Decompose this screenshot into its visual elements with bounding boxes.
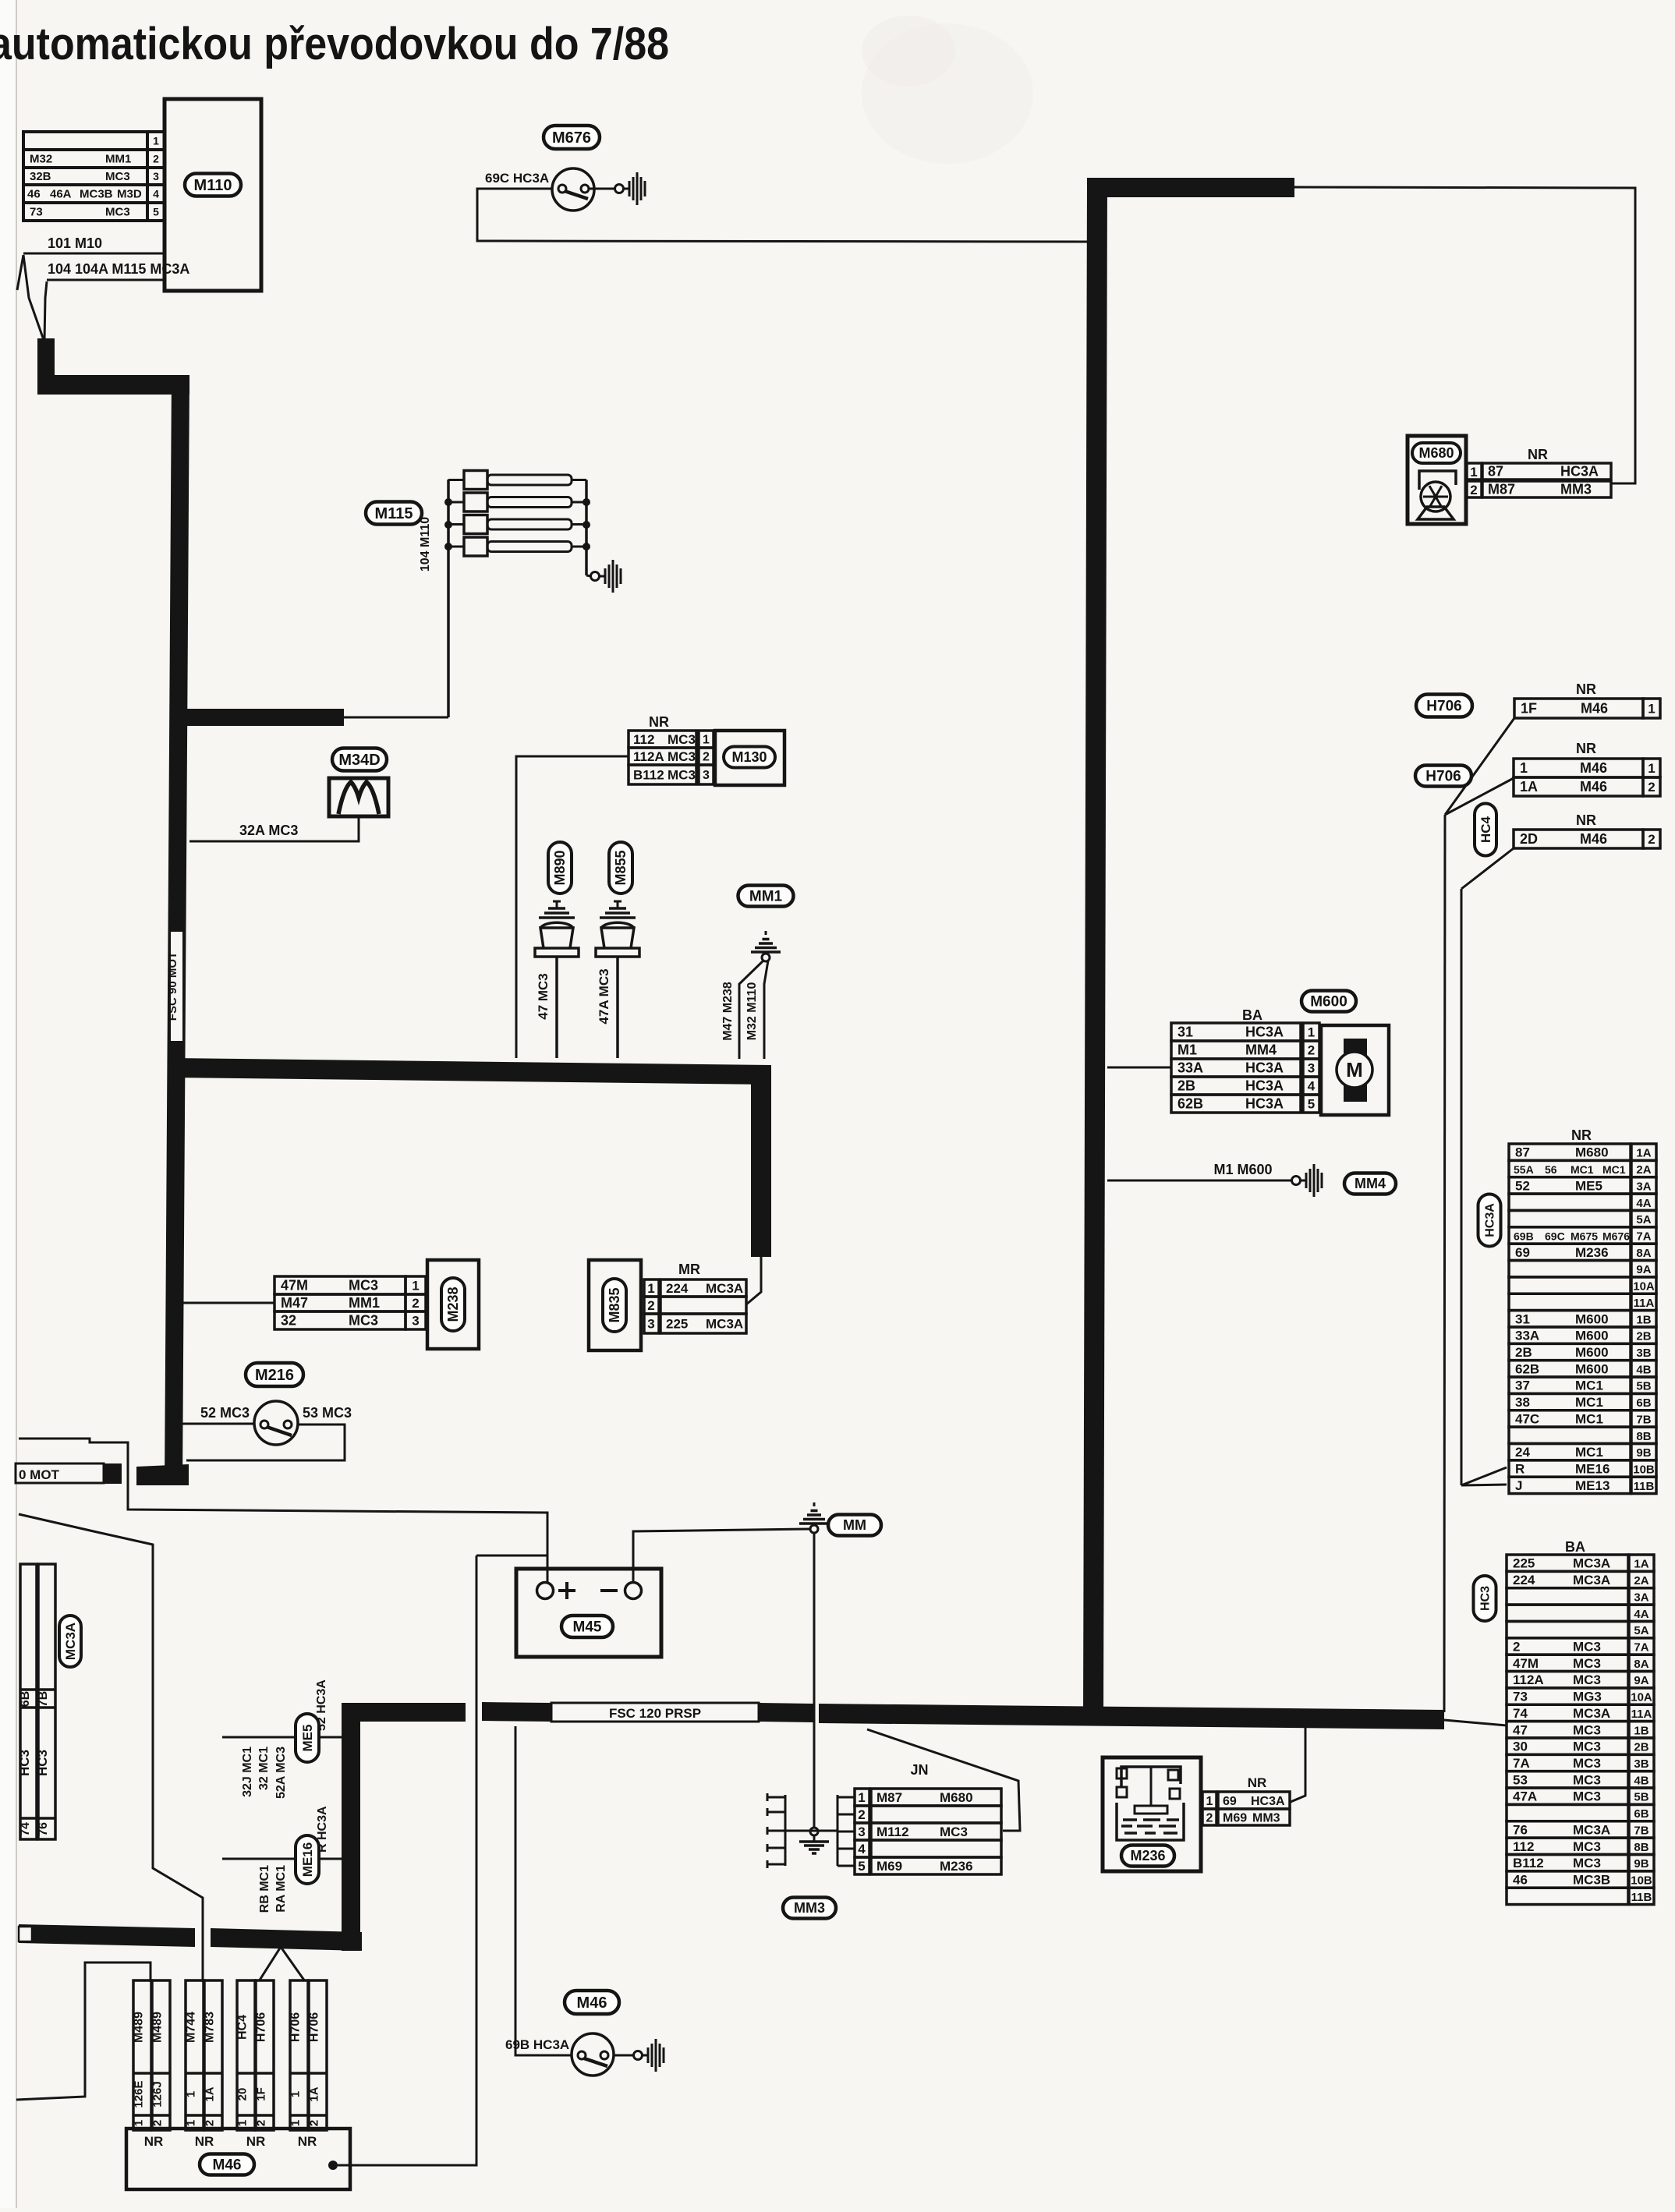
svg-text:47A MC3: 47A MC3 [597,968,611,1024]
ground JN MM3 [810,1828,818,1835]
svg-text:MC3: MC3 [668,749,696,764]
svg-text:M45: M45 [573,1619,602,1635]
HC3 row 2A [1507,1571,1628,1587]
svg-text:47C: 47C [1515,1411,1539,1426]
HC3 row 1A [1507,1555,1628,1571]
switch M46 [572,2033,614,2076]
svg-text:224: 224 [1513,1573,1535,1587]
wire bus to JN [867,1729,1020,1831]
svg-text:M600: M600 [1310,993,1347,1010]
svg-text:4B: 4B [1636,1363,1651,1376]
svg-text:M1 M600: M1 M600 [1213,1162,1272,1177]
bus MOT vertical drop to M835 [751,1065,771,1257]
connector table M110 [23,132,147,150]
JN row 4 [871,1840,1001,1857]
HC3A row 5A [1509,1210,1631,1226]
label oval M680 [1412,443,1461,463]
connector column M489 126E [133,1980,151,2130]
svg-text:RA MC1: RA MC1 [274,1865,288,1913]
svg-text:69B HC3A: 69B HC3A [505,2037,569,2052]
svg-text:RB MC1: RB MC1 [258,1865,271,1913]
svg-text:4: 4 [153,187,159,200]
svg-text:2: 2 [1513,1639,1520,1654]
svg-text:9B: 9B [1636,1446,1651,1460]
battery M45 [516,1569,661,1657]
wire to ME16 ME13 rows [1461,1467,1507,1485]
svg-text:6B: 6B [1636,1396,1651,1410]
HC3 row 11A [1507,1704,1628,1721]
HC3A row 10B [1509,1460,1631,1477]
svg-text:NR: NR [195,2134,214,2149]
bus PRSP main vertical [1083,178,1107,1725]
svg-text:MC3A: MC3A [1573,1556,1610,1571]
svg-text:2B: 2B [1177,1078,1195,1094]
label oval M236 [1121,1846,1174,1867]
connector table M238 [274,1276,405,1294]
wire to M744 connector [19,1514,203,1982]
svg-text:76: 76 [37,1822,50,1836]
glow plug rail right [585,480,588,576]
svg-text:52A MC3: 52A MC3 [274,1747,288,1799]
bus MOT right stub [186,709,344,726]
svg-text:1: 1 [1648,701,1655,716]
svg-text:73: 73 [1513,1690,1528,1704]
svg-text:NR: NR [246,2134,266,2149]
svg-text:MC3: MC3 [105,170,130,183]
svg-text:69: 69 [1223,1795,1237,1808]
svg-text:M115: M115 [375,505,413,522]
connector column M744 1 [186,1980,204,2130]
switch M216 [254,1401,298,1445]
svg-text:H706: H706 [1426,698,1461,714]
HC3A row 6B [1509,1393,1631,1410]
svg-text:4: 4 [1308,1078,1316,1093]
svg-text:112: 112 [1513,1839,1534,1854]
svg-text:M855: M855 [613,850,629,885]
svg-text:MR: MR [678,1262,700,1277]
svg-text:MC3: MC3 [349,1278,378,1294]
ground MM [810,1525,818,1533]
svg-text:1A: 1A [308,2086,321,2101]
svg-text:224: 224 [666,1281,689,1296]
svg-text:112A: 112A [1513,1672,1544,1687]
wire 52 HC3A through ME5 [222,1736,342,1739]
svg-text:52 MC3: 52 MC3 [200,1405,250,1421]
svg-text:HC3A: HC3A [1560,464,1599,480]
svg-text:31: 31 [1515,1311,1530,1326]
svg-text:M238: M238 [445,1286,461,1322]
svg-text:M236: M236 [940,1859,973,1874]
svg-text:2D: 2D [1520,831,1538,847]
HC3A row 11B [1509,1477,1631,1493]
svg-text:5: 5 [153,205,159,218]
svg-text:0 MOT: 0 MOT [19,1467,60,1482]
svg-text:BA: BA [1242,1007,1262,1023]
junction dot M46 [328,2161,338,2170]
svg-text:HC3A: HC3A [1245,1078,1284,1094]
label oval M835 [603,1279,626,1332]
svg-text:62B: 62B [1515,1361,1539,1376]
svg-text:8B: 8B [1634,1841,1648,1854]
HC3A row 9B [1509,1443,1631,1460]
HC3 row 8B [1507,1838,1628,1854]
svg-text:2: 2 [858,1807,865,1822]
svg-text:1: 1 [1206,1795,1213,1808]
HC3A row 8A [1509,1244,1631,1260]
label oval M46 [200,2154,254,2175]
bus MOT vertical stub [37,338,55,387]
connector row 2D M46 [1514,830,1643,848]
fan symbol M680 [1419,471,1456,490]
bus top arm at ME5 [342,1703,466,1722]
svg-text:1F: 1F [255,2087,268,2101]
svg-text:11A: 11A [1631,1708,1652,1721]
HC3 row 9A [1507,1672,1628,1688]
svg-text:46A: 46A [50,188,72,201]
svg-text:10B: 10B [1633,1463,1655,1477]
svg-text:M236: M236 [1575,1245,1609,1260]
HC3 row 2B [1507,1738,1628,1754]
HC3 row 8A [1507,1655,1628,1671]
svg-text:MC1: MC1 [1571,1163,1594,1176]
svg-text:1F: 1F [1521,701,1537,717]
svg-text:M600: M600 [1575,1329,1609,1343]
svg-text:H706: H706 [308,2012,321,2042]
wire MM ground to JN ground [813,1533,816,1828]
label oval M130 [724,747,775,768]
svg-text:1: 1 [185,2091,198,2097]
svg-text:4A: 4A [1636,1197,1651,1210]
label oval M600 [1301,991,1356,1012]
svg-text:MC3A: MC3A [706,1317,743,1332]
svg-text:24: 24 [1515,1445,1530,1460]
wire 47A MC3 [616,957,619,1058]
wire branch battery to M46 [476,1555,547,1557]
bus FSC 120 PRSP right segment [819,1704,1444,1729]
bus MOT horizontal [37,375,189,395]
JN row 2 [871,1806,1001,1823]
ground at M46 [634,2051,643,2060]
svg-text:M675: M675 [1571,1230,1598,1242]
svg-text:3: 3 [647,1317,654,1332]
HC3 row 10A [1507,1688,1628,1704]
svg-text:62B: 62B [1177,1096,1203,1112]
label oval HC3 [1474,1576,1496,1621]
label oval H706 second [1415,766,1471,787]
svg-text:MM1: MM1 [749,888,783,904]
wire H706 harness [1445,718,1514,815]
svg-text:3: 3 [412,1313,419,1328]
svg-text:2: 2 [204,2120,217,2126]
svg-text:ME5: ME5 [1575,1178,1602,1193]
svg-text:M890: M890 [552,850,568,885]
svg-text:2: 2 [255,2120,268,2126]
label oval HC3A [1478,1194,1501,1247]
svg-text:ME16: ME16 [300,1842,315,1877]
label oval M110 [185,174,241,196]
HC3A row 3B [1509,1343,1631,1360]
bus PRSP top bar [1087,178,1294,197]
svg-text:1B: 1B [1634,1724,1648,1737]
svg-text:69C HC3A: 69C HC3A [485,171,549,186]
wire R HC3A through ME16 [222,1858,342,1860]
svg-text:7B: 7B [1634,1824,1648,1837]
svg-text:MC3: MC3 [1573,1656,1601,1671]
component box M110 [165,99,261,291]
svg-text:2: 2 [153,152,159,165]
HC3 row 5A [1507,1621,1628,1637]
svg-text:2: 2 [1206,1812,1213,1825]
svg-text:ME13: ME13 [1575,1478,1609,1493]
bus 0 MOT left segment [16,1463,104,1483]
wire M32 M110 [764,961,768,1059]
wire 104 104A M115 MC3A [47,279,163,281]
svg-text:M87: M87 [1488,482,1515,497]
svg-text:M46: M46 [213,2157,242,2173]
connector row 1A M46 [1514,777,1643,796]
svg-text:7B: 7B [1636,1413,1651,1426]
HC3A row 4B [1509,1361,1631,1377]
svg-text:NR: NR [1576,741,1596,756]
wire 104 to bus stub [344,717,448,719]
svg-text:M46: M46 [1580,779,1607,795]
svg-text:46: 46 [27,188,41,201]
connector row 1F M46 [1514,699,1643,718]
connector rows M835 [644,1279,659,1297]
bus MOT horizontal middle [171,1058,771,1085]
svg-text:M34D: M34D [338,752,380,769]
svg-text:7A: 7A [1513,1756,1530,1771]
svg-text:3: 3 [858,1824,865,1839]
svg-text:3: 3 [1308,1060,1315,1075]
wire harness vertical A [1444,815,1445,1712]
svg-text:38: 38 [1515,1395,1530,1410]
bus vertical to M46 area [342,1703,360,1951]
svg-text:2: 2 [308,2120,321,2126]
svg-text:2: 2 [1308,1042,1315,1057]
svg-text:3A: 3A [1636,1180,1651,1193]
svg-text:BA: BA [1565,1539,1585,1555]
JN pin 4 [837,1848,855,1850]
bus PRSP link to HC3 table [1444,1720,1507,1725]
label oval M46 switch [565,1991,619,2014]
svg-text:52: 52 [1515,1178,1530,1193]
svg-text:automatickou převodovkou do 7/: automatickou převodovkou do 7/88 [0,19,669,69]
svg-text:11B: 11B [1634,1480,1655,1493]
svg-text:1: 1 [289,2120,303,2126]
svg-text:11A: 11A [1634,1297,1655,1310]
svg-text:M46: M46 [1580,760,1607,776]
svg-text:MC3: MC3 [940,1824,968,1839]
component box M34D [329,778,388,816]
svg-text:10B: 10B [1631,1874,1652,1888]
glow plug 2 M115 [448,501,464,504]
glow plug rail left [447,480,450,717]
HC3A row 3A [1509,1177,1631,1194]
svg-text:1: 1 [858,1790,865,1805]
svg-text:MC3A: MC3A [1573,1573,1610,1587]
svg-text:HC3A: HC3A [1251,1795,1285,1808]
wire 52 MC3 [178,1423,254,1425]
wire to M489 connector [16,1962,151,2100]
svg-text:NR: NR [649,714,669,730]
svg-text:1: 1 [647,1281,654,1296]
wire M46 dot vertical [338,1555,476,2165]
svg-text:1A: 1A [1636,1147,1651,1160]
bus lower left segment B [211,1928,362,1951]
svg-text:112A: 112A [633,749,664,764]
HC3 row 5B [1507,1788,1628,1804]
wire 69C HC3A [477,189,1087,242]
svg-text:MC3: MC3 [1573,1722,1601,1737]
svg-text:MC3A: MC3A [1573,1706,1610,1721]
connector row 1 M46 [1514,759,1643,777]
svg-text:1: 1 [1308,1025,1315,1039]
fuel sender symbol M236 [1121,1767,1181,1787]
label oval HC4 [1475,804,1496,856]
svg-text:M32 M110: M32 M110 [745,982,759,1041]
wire 53 MC3 [186,1425,345,1460]
label oval MM [828,1515,881,1536]
JN row 3 [871,1823,1001,1840]
HC3A row 5B [1509,1377,1631,1393]
svg-text:5: 5 [1308,1096,1315,1111]
svg-text:MM3: MM3 [794,1900,825,1916]
svg-text:5: 5 [858,1859,865,1874]
scan page edge [0,0,16,2208]
svg-text:32: 32 [281,1313,296,1329]
svg-text:MC3: MC3 [1573,1672,1601,1687]
svg-text:33A: 33A [1177,1060,1203,1076]
HC3A row 4A [1509,1194,1631,1210]
HC3A row 11A [1509,1294,1631,1310]
svg-text:B112: B112 [633,767,664,782]
component box M46 [126,2129,350,2189]
svg-text:M47 M238: M47 M238 [721,982,735,1041]
svg-text:NR: NR [1248,1775,1267,1790]
svg-text:M489: M489 [133,2012,146,2043]
svg-text:69C: 69C [1545,1230,1565,1242]
svg-text:HC3: HC3 [17,1750,32,1776]
svg-text:74: 74 [1513,1706,1528,1721]
svg-text:M46: M46 [1580,831,1607,847]
svg-text:1: 1 [133,2120,146,2126]
wire M1 M600 [1107,1180,1292,1182]
svg-text:J: J [1515,1478,1522,1493]
svg-text:H706: H706 [255,2012,268,2042]
svg-text:3: 3 [153,170,159,182]
svg-text:MC1: MC1 [1575,1395,1603,1410]
HC3A row 9A [1509,1261,1631,1277]
svg-text:1B: 1B [1636,1313,1651,1326]
svg-text:M676: M676 [1602,1230,1630,1242]
svg-text:7B: 7B [37,1691,50,1707]
component box M835 [589,1260,641,1350]
svg-text:MM4: MM4 [1355,1176,1386,1191]
svg-text:8A: 8A [1634,1658,1648,1671]
svg-text:2: 2 [412,1296,419,1311]
svg-text:NR: NR [144,2134,164,2149]
bus lower left segment A [19,1924,195,1947]
svg-text:10A: 10A [1633,1280,1655,1294]
HC3A row 1B [1509,1311,1631,1327]
label oval MC3A [59,1616,81,1667]
svg-text:M87: M87 [876,1790,902,1805]
wire battery negative to MM ground [633,1529,810,1582]
HC3 row 7B [1507,1821,1628,1838]
svg-text:M112: M112 [876,1824,909,1839]
wire comb to JN rail [767,1830,837,1832]
sender M855 [596,948,639,957]
label oval MM4 [1344,1173,1396,1194]
HC3A row 10A [1509,1277,1631,1294]
JN pin 5 [837,1865,855,1867]
svg-text:M236: M236 [1130,1848,1165,1863]
svg-text:M32: M32 [30,153,52,166]
svg-text:225: 225 [666,1317,688,1332]
svg-text:R: R [1515,1462,1524,1477]
svg-text:104 M110: 104 M110 [419,517,432,572]
wire M47 MM1 to M238 [179,1302,274,1304]
svg-text:112: 112 [633,732,654,747]
glow plug 1 M115 [448,479,464,481]
svg-text:31: 31 [1177,1025,1193,1040]
HC3 row 6B [1507,1804,1628,1821]
svg-text:MM1: MM1 [349,1295,380,1311]
svg-text:MC3: MC3 [1573,1639,1601,1654]
svg-text:11B: 11B [1631,1891,1652,1904]
connector table M130 [629,731,696,748]
svg-text:M676: M676 [552,129,591,147]
connector column HC4 20 [237,1980,255,2130]
svg-text:47: 47 [1513,1722,1528,1737]
svg-text:M783: M783 [204,2012,217,2043]
svg-text:9A: 9A [1636,1263,1651,1276]
HC3 row 4A [1507,1605,1628,1621]
svg-text:4B: 4B [1634,1774,1648,1787]
HC3 row 10B [1507,1871,1628,1888]
svg-text:2: 2 [703,751,710,764]
svg-text:JN: JN [910,1762,928,1778]
svg-text:1: 1 [1520,760,1528,776]
wire 69 HC3A to M236 [1291,1727,1305,1802]
svg-text:MC3: MC3 [1573,1756,1601,1771]
connector column H706 1 [290,1980,308,2130]
svg-text:M680: M680 [1575,1145,1609,1160]
svg-text:101 M10: 101 M10 [48,235,102,251]
svg-text:M69: M69 [876,1859,902,1874]
svg-text:M680: M680 [1418,445,1454,461]
svg-text:53 MC3: 53 MC3 [303,1405,352,1421]
svg-text:69: 69 [1515,1245,1530,1260]
svg-text:M3D: M3D [117,188,142,201]
connector column H706 1A [309,1980,327,2130]
svg-text:1: 1 [412,1278,419,1293]
svg-text:1: 1 [1648,761,1655,776]
component box M600 motor [1321,1025,1389,1115]
svg-text:5B: 5B [1636,1380,1651,1393]
svg-text:56: 56 [1545,1163,1557,1176]
svg-text:126E: 126E [133,2080,146,2108]
svg-text:9B: 9B [1634,1857,1648,1870]
JN row 1 [871,1789,1001,1806]
svg-text:47M: 47M [281,1278,308,1294]
svg-text:MC3: MC3 [105,206,130,219]
svg-text:2A: 2A [1634,1574,1648,1587]
svg-text:9A: 9A [1634,1674,1648,1687]
svg-text:NR: NR [1571,1127,1592,1143]
wire to M680 [1294,187,1635,483]
